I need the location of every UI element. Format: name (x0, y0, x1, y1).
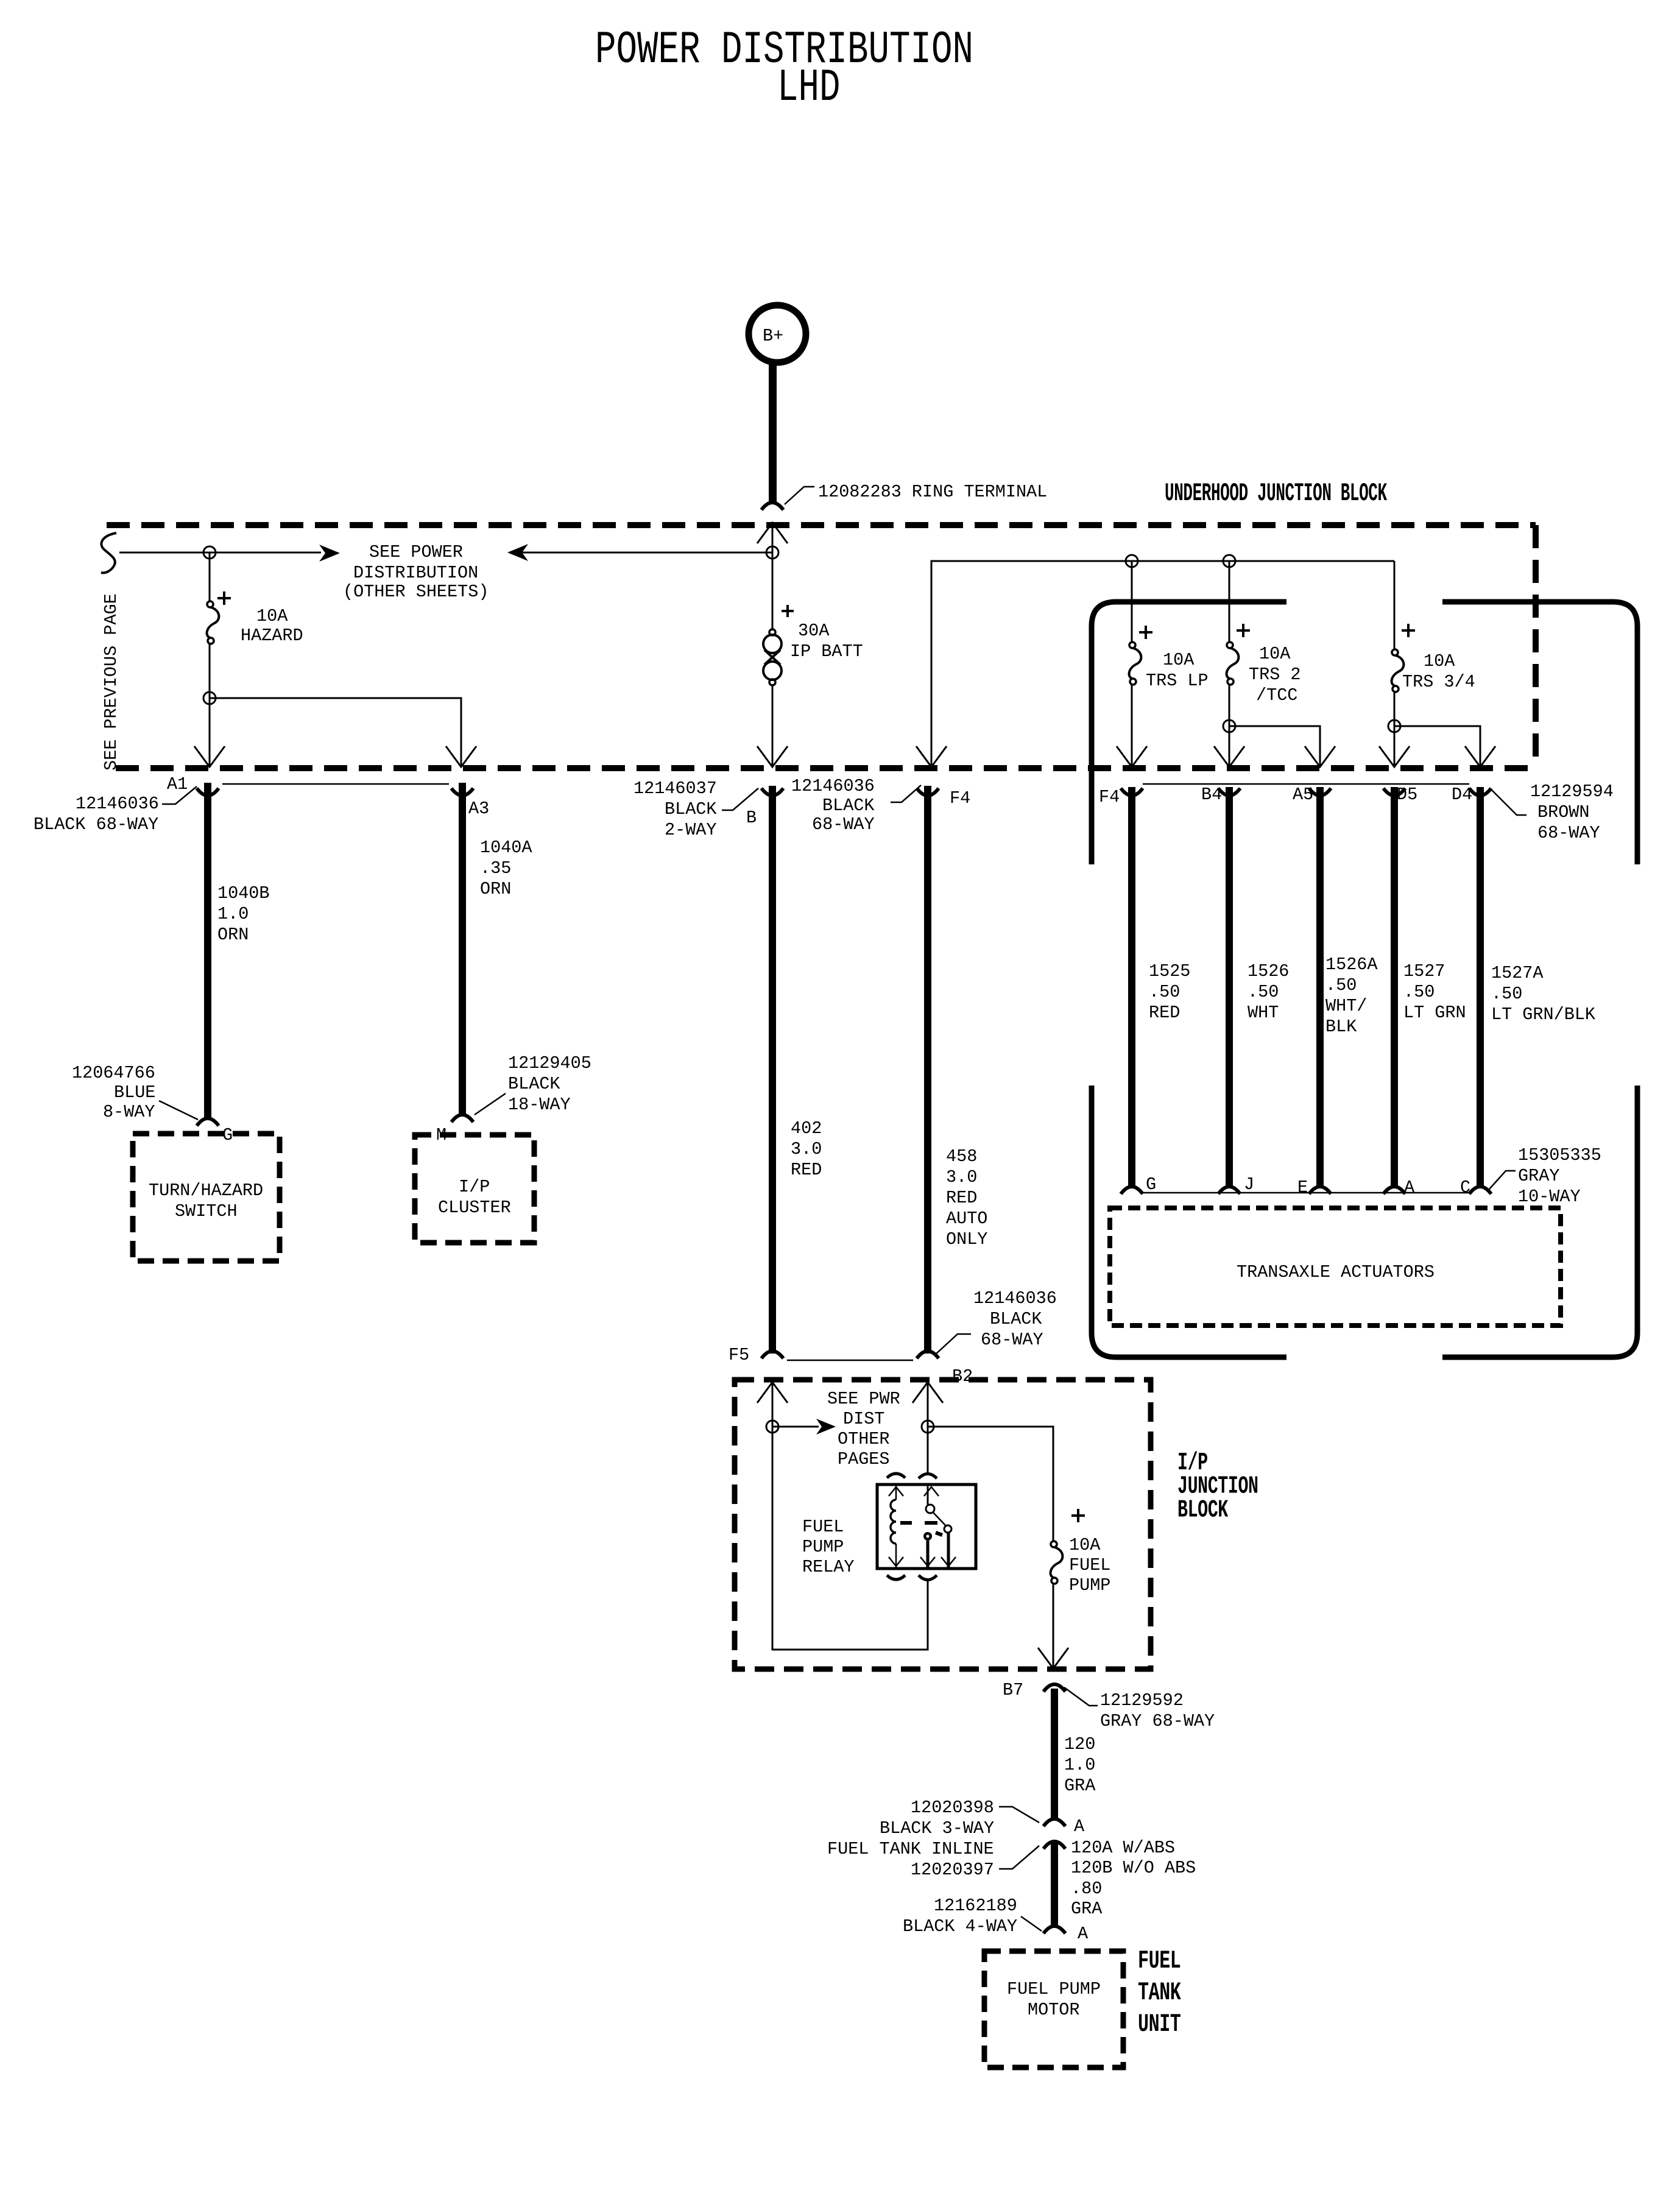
relay switch terminal cup bottom with bar (919, 1575, 937, 1580)
relay coil terminal cup top (887, 1474, 905, 1478)
fuse F-TRS-LP 10A (1129, 626, 1209, 691)
wire node to TRS LP fuse (1131, 561, 1133, 643)
svg-text:BROWN: BROWN (1537, 802, 1590, 822)
connector cup F4 (trans) (1121, 788, 1143, 796)
bracket bottom-left (1092, 1086, 1286, 1357)
svg-text:LT GRN: LT GRN (1403, 1003, 1466, 1023)
underhood junction block dashed border right (1533, 525, 1539, 768)
svg-text:12146037: 12146037 (634, 778, 717, 799)
svg-text:F5: F5 (729, 1345, 749, 1365)
arrow into B4 (1214, 746, 1244, 767)
relay switch terminal cup top with bar (919, 1474, 937, 1479)
arrow into B7 (1038, 1648, 1068, 1668)
wire TRS3/4 branch to D4 (1394, 726, 1480, 766)
svg-text:12082283 RING TERMINAL: 12082283 RING TERMINAL (818, 482, 1047, 502)
svg-text:12064766: 12064766 (72, 1063, 155, 1083)
connector cup B (761, 788, 783, 796)
wire B+ node down to breaker (772, 552, 774, 630)
svg-text:PUMP: PUMP (802, 1537, 844, 1557)
wire 1526A WHT/BLK (1316, 787, 1324, 1187)
inline connector upper cup (1043, 1819, 1065, 1826)
svg-text:2-WAY: 2-WAY (665, 820, 717, 840)
wire other sheets to B+ node (522, 552, 772, 554)
connector cup G 8-way (197, 1118, 219, 1126)
arrow from other sheets (left) (507, 544, 528, 561)
svg-text:AUTO: AUTO (946, 1209, 987, 1229)
svg-text:SEE POWER: SEE POWER (369, 542, 463, 562)
svg-text:12020397: 12020397 (911, 1860, 994, 1880)
svg-text:30A: 30A (798, 621, 830, 641)
wire node to TRS 2 fuse (1229, 561, 1230, 643)
svg-text:B7: B7 (1003, 1680, 1023, 1700)
arrow into B (757, 746, 788, 767)
leader 12020398 (999, 1807, 1039, 1823)
svg-text:GRAY: GRAY (1518, 1166, 1559, 1186)
wire from previous page to hazard node (119, 552, 321, 554)
arrow into D5 (1379, 746, 1410, 767)
svg-text:RED: RED (946, 1188, 977, 1208)
arrow F5 into I/P block (757, 1382, 788, 1403)
svg-text:15305335: 15305335 (1518, 1145, 1601, 1165)
svg-text:GRAY 68-WAY: GRAY 68-WAY (1100, 1711, 1215, 1731)
arrow into A3 (446, 746, 476, 767)
svg-text:MOTOR: MOTOR (1028, 2000, 1080, 2020)
svg-text:1040A: 1040A (480, 838, 532, 858)
I/P junction block dashed border (735, 1380, 1151, 1669)
arrow to see power distribution (right) (319, 545, 340, 562)
bracket top-left (1092, 602, 1286, 864)
svg-text:TRS LP: TRS LP (1146, 671, 1209, 691)
svg-text:120: 120 (1064, 1734, 1095, 1754)
svg-text:G: G (1146, 1174, 1156, 1195)
svg-text:SEE PWR: SEE PWR (827, 1389, 900, 1409)
wire fuse to B7 (1053, 1584, 1054, 1668)
svg-text:BLACK: BLACK (990, 1309, 1042, 1329)
connector face line F4-D4 (1143, 783, 1469, 785)
svg-text:458: 458 (946, 1146, 977, 1167)
node TRS2 split (1223, 720, 1235, 732)
wire TRS2 branch to A5 (1229, 726, 1320, 766)
wire B+ stem (769, 362, 777, 503)
svg-text:120A W/ABS: 120A W/ABS (1071, 1838, 1175, 1858)
connector cup B2 (917, 1351, 939, 1358)
leader brown 68-way (1491, 789, 1526, 815)
svg-text:FUEL: FUEL (1069, 1555, 1110, 1575)
leader gray 68-way B7 (1064, 1687, 1098, 1706)
svg-text:120B W/O ABS: 120B W/O ABS (1071, 1858, 1196, 1878)
node TRS LP (1126, 555, 1138, 567)
svg-text:1.0: 1.0 (1064, 1755, 1095, 1775)
wire 1040B (204, 783, 211, 1118)
fuse F-TRS-2 10A (1227, 624, 1301, 705)
svg-text:FUEL: FUEL (802, 1517, 844, 1537)
wire 1527 LT GRN (1391, 787, 1398, 1187)
leader 12020397 (999, 1846, 1039, 1869)
page break squiggle (101, 533, 116, 573)
arrow see pwr dist (772, 1426, 819, 1428)
svg-text:/TCC: /TCC (1256, 685, 1297, 705)
svg-text:GRA: GRA (1064, 1776, 1096, 1796)
svg-text:RED: RED (791, 1160, 822, 1180)
wire 120 GRA (1051, 1689, 1058, 1820)
svg-text:12129405: 12129405 (508, 1053, 591, 1073)
svg-text:68-WAY: 68-WAY (981, 1330, 1043, 1350)
svg-text:IP BATT: IP BATT (790, 641, 863, 662)
node F5 see-pwr (766, 1421, 778, 1433)
svg-text:A3: A3 (468, 799, 489, 819)
svg-text:LT GRN/BLK: LT GRN/BLK (1491, 1004, 1596, 1025)
svg-text:68-WAY: 68-WAY (1537, 823, 1600, 843)
arrow B2 into I/P block (912, 1382, 943, 1403)
connector face line 10-way (1143, 1192, 1469, 1194)
bracket top-right (1442, 602, 1637, 864)
svg-text:.50: .50 (1325, 975, 1357, 995)
arrow into F4 right (1117, 746, 1147, 767)
svg-text:D5: D5 (1397, 785, 1417, 805)
svg-text:18-WAY: 18-WAY (508, 1095, 571, 1115)
leader 68-way F4 (891, 785, 921, 802)
svg-text:A: A (1078, 1924, 1089, 1944)
leader 2-way (722, 788, 758, 810)
svg-text:12129592: 12129592 (1100, 1690, 1184, 1710)
node hazard split (203, 692, 216, 704)
arrow into A5 (1305, 746, 1335, 767)
svg-text:12162189: 12162189 (934, 1896, 1017, 1916)
svg-text:1526: 1526 (1248, 961, 1289, 981)
fuse F-HAZARD 10A (207, 591, 303, 646)
svg-text:402: 402 (791, 1118, 822, 1139)
connector cup M 18-way (451, 1115, 473, 1122)
svg-text:10-WAY: 10-WAY (1518, 1187, 1581, 1207)
relay K-FUELPUMP box (877, 1485, 976, 1569)
wire node2 to A3 branch (210, 698, 461, 766)
svg-text:B+: B+ (763, 326, 783, 346)
connector cup D5 (1383, 788, 1405, 796)
svg-text:1.0: 1.0 (217, 904, 249, 924)
wire 120A/120B GRA (1051, 1843, 1058, 1928)
svg-text:LHD: LHD (777, 62, 841, 114)
svg-text:68-WAY: 68-WAY (812, 814, 875, 835)
svg-text:PUMP: PUMP (1069, 1575, 1110, 1595)
connector cup A 10-way (1383, 1187, 1405, 1194)
arrow into F4 (916, 746, 947, 767)
leader 18-way (475, 1093, 506, 1115)
svg-text:DIST: DIST (843, 1409, 884, 1429)
wire TRS LP fuse to F4 pin (1131, 685, 1133, 766)
wire 402 RED (769, 786, 776, 1354)
circuit breaker CB 30A IP BATT (763, 605, 863, 685)
leader 68-way B2 (935, 1334, 971, 1355)
svg-text:TRS 3/4: TRS 3/4 (1402, 672, 1475, 692)
svg-text:TURN/HAZARD: TURN/HAZARD (149, 1181, 263, 1201)
wire hazard fuse to node2 (209, 644, 211, 698)
connector cup ring terminal (761, 503, 783, 510)
svg-text:RED: RED (1149, 1003, 1180, 1023)
svg-text:E: E (1297, 1177, 1308, 1198)
svg-text:F4: F4 (950, 788, 970, 808)
connector cup A1 (197, 788, 219, 796)
svg-text:UNDERHOOD JUNCTION BLOCK: UNDERHOOD JUNCTION BLOCK (1165, 479, 1387, 508)
wire bus to F4 and fuses (931, 561, 1394, 766)
svg-text:SEE PREVIOUS PAGE: SEE PREVIOUS PAGE (101, 593, 121, 771)
wire breaker to B (772, 685, 774, 766)
wire TRS3/4 fuse to node (1394, 692, 1396, 766)
leader 68-way A1 (162, 786, 197, 804)
svg-text:FUEL TANK INLINE: FUEL TANK INLINE (827, 1839, 994, 1859)
wire bus corner to TRS 3/4 fuse (1394, 561, 1396, 650)
svg-text:3.0: 3.0 (791, 1139, 822, 1159)
arrow into D4 (1465, 746, 1495, 767)
svg-text:HAZARD: HAZARD (241, 626, 303, 646)
component box TRANSAXLE ACTUATORS (1110, 1208, 1561, 1326)
svg-text:3.0: 3.0 (946, 1167, 977, 1187)
wire node2 down to A1 (209, 698, 211, 766)
underhood junction block dashed border bottom (116, 765, 1536, 771)
connector cup J 10-way (1218, 1187, 1240, 1194)
connector cup F5 (761, 1351, 783, 1358)
bracket bottom-right (1442, 1086, 1637, 1357)
wire 458 RED (924, 786, 931, 1354)
svg-text:FUEL PUMP: FUEL PUMP (1007, 1979, 1101, 1999)
node B2 fuse feed (922, 1421, 934, 1433)
svg-text:BLACK 3-WAY: BLACK 3-WAY (880, 1818, 994, 1838)
svg-text:10A: 10A (1259, 644, 1291, 664)
svg-text:BLK: BLK (1325, 1017, 1357, 1037)
fuse F-FUELPUMP 10A (1051, 1509, 1111, 1595)
svg-text:12146036: 12146036 (76, 794, 159, 814)
svg-text:CLUSTER: CLUSTER (438, 1198, 511, 1218)
node TRS 2 (1223, 555, 1235, 567)
svg-text:.50: .50 (1403, 982, 1435, 1002)
connector cup D4 (1469, 788, 1491, 796)
connector cup F4 (I/P feed) (917, 788, 939, 796)
connector face line F5-B2 (787, 1360, 913, 1361)
svg-text:ORN: ORN (480, 879, 511, 899)
connector cup B4 (1218, 788, 1240, 796)
svg-text:8-WAY: 8-WAY (103, 1102, 155, 1122)
svg-text:.50: .50 (1491, 984, 1522, 1004)
svg-text:.50: .50 (1149, 982, 1180, 1002)
leader ring terminal (785, 487, 814, 504)
component box FUEL PUMP MOTOR (984, 1951, 1123, 2067)
svg-text:D4: D4 (1452, 785, 1472, 805)
wire B2 leg to relay (927, 1383, 929, 1473)
svg-text:12146036: 12146036 (791, 776, 875, 796)
leader 12162189 (1021, 1916, 1042, 1931)
svg-text:SWITCH: SWITCH (175, 1201, 238, 1221)
svg-text:12020398: 12020398 (911, 1798, 994, 1818)
connector cup E 10-way (1309, 1187, 1331, 1194)
component box I/P CLUSTER (415, 1135, 534, 1243)
svg-text:10A: 10A (256, 606, 288, 626)
arrow into A1 (194, 746, 225, 767)
relay coil (889, 1485, 903, 1569)
svg-text:BLACK 4-WAY: BLACK 4-WAY (903, 1916, 1017, 1936)
svg-text:1040B: 1040B (217, 883, 270, 903)
svg-text:WHT: WHT (1248, 1003, 1279, 1023)
wire 1527A LT GRN/BLK (1477, 787, 1484, 1187)
svg-text:10A: 10A (1069, 1535, 1101, 1555)
svg-text:FUELTANKUNIT: FUELTANKUNIT (1138, 1946, 1181, 2038)
svg-text:B2: B2 (952, 1366, 973, 1386)
svg-text:BLACK: BLACK (508, 1074, 560, 1094)
connector cup A3 (451, 788, 473, 796)
svg-text:.50: .50 (1248, 982, 1279, 1002)
node hazard feed (203, 546, 216, 559)
node B+ bus (766, 546, 778, 559)
svg-text:RELAY: RELAY (802, 1557, 855, 1577)
svg-text:WHT/: WHT/ (1325, 996, 1367, 1016)
connector cup B7 (1043, 1684, 1065, 1692)
svg-text:12129594: 12129594 (1530, 782, 1614, 802)
svg-text:12146036: 12146036 (973, 1288, 1057, 1308)
svg-text:F4: F4 (1099, 787, 1120, 807)
wire 1040A (459, 783, 466, 1114)
title POWER DISTRIBUTION LHD (595, 24, 973, 114)
wire B2 node to fuel pump fuse (928, 1427, 1053, 1542)
leader gray 10-way (1489, 1171, 1516, 1189)
svg-text:GRA: GRA (1071, 1899, 1103, 1919)
svg-text:DISTRIBUTION: DISTRIBUTION (353, 563, 478, 583)
svg-text:1526A: 1526A (1325, 955, 1378, 975)
svg-text:(OTHER SHEETS): (OTHER SHEETS) (343, 582, 489, 602)
connector cup A 4-way (1043, 1926, 1065, 1933)
svg-text:A5: A5 (1293, 785, 1313, 805)
svg-text:TRS 2: TRS 2 (1249, 665, 1301, 685)
svg-text:1527A: 1527A (1491, 963, 1544, 983)
svg-text:.80: .80 (1071, 1879, 1102, 1899)
svg-text:1527: 1527 (1403, 961, 1445, 981)
svg-text:B: B (746, 808, 757, 828)
svg-text:J: J (1244, 1174, 1254, 1195)
wire 1526 WHT (1226, 787, 1233, 1187)
svg-text:10A: 10A (1424, 651, 1455, 671)
component box TURN/HAZARD SWITCH (133, 1134, 280, 1261)
wire TRS2 fuse to node (1229, 685, 1230, 766)
battery terminal B+ (749, 305, 806, 362)
wire F5 leg (772, 1383, 928, 1650)
svg-text:BLACK 68-WAY: BLACK 68-WAY (34, 814, 158, 835)
svg-text:B4: B4 (1201, 785, 1222, 805)
svg-text:BLACK: BLACK (822, 796, 875, 816)
fuse F-TRS-34 10A (1392, 624, 1475, 692)
svg-text:10A: 10A (1163, 650, 1195, 670)
svg-text:ORN: ORN (217, 925, 249, 945)
inline connector lower cup (1043, 1841, 1065, 1849)
svg-text:BLACK: BLACK (665, 799, 717, 819)
arrow B+ into junction block (757, 523, 788, 543)
leader 8-way (159, 1101, 198, 1120)
svg-text:A1: A1 (167, 774, 188, 794)
svg-text:ONLY: ONLY (946, 1229, 987, 1249)
svg-text:I/P: I/P (459, 1177, 490, 1197)
node TRS3/4 split (1388, 720, 1400, 732)
relay switch (920, 1485, 956, 1569)
svg-text:BLUE: BLUE (114, 1082, 155, 1103)
connector cup A5 (1309, 788, 1331, 796)
svg-text:C: C (1460, 1177, 1470, 1198)
relay coil terminal cup bottom (887, 1575, 905, 1580)
svg-text:OTHER: OTHER (838, 1429, 890, 1449)
wire 1525 RED (1128, 787, 1135, 1187)
relay linkage dashes (900, 1521, 937, 1525)
svg-text:1525: 1525 (1149, 961, 1190, 981)
underhood junction block dashed border top (107, 522, 1536, 528)
svg-text:A: A (1404, 1177, 1415, 1198)
svg-text:PAGES: PAGES (838, 1449, 890, 1469)
svg-text:.35: .35 (480, 858, 511, 878)
svg-text:TRANSAXLE ACTUATORS: TRANSAXLE ACTUATORS (1237, 1262, 1435, 1282)
connector face line A1-A3 (222, 783, 449, 785)
svg-text:A: A (1074, 1816, 1085, 1837)
connector cup G 10-way (1121, 1187, 1143, 1194)
connector cup C 10-way (1469, 1187, 1491, 1194)
